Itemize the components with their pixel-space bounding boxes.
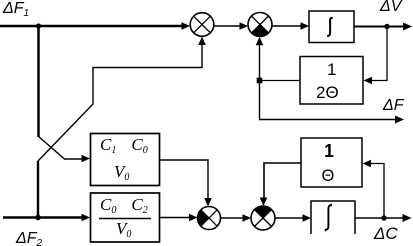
node junction dot on ΔC line [381,215,386,220]
wire M2 to integrator U1 [272,25,301,27]
wire ΔF1 input horizontal [0,25,183,28]
svg-text:1: 1 [324,141,334,161]
node junction dot at ΔF2 line [35,215,41,221]
wire block B1 output to mixer M3 [160,160,209,200]
svg-text:ΔV: ΔV [379,0,403,15]
wire arrow up into mixer M2 bottom [256,37,264,46]
wire feedback up into mixer M2 bottom [259,44,261,81]
wire M3 to M4 [221,217,244,219]
mixer M3 (west quadrant filled) [198,207,221,230]
multiplier M1 [190,13,214,37]
wire feedback from ΔV node down to block B3 [371,27,387,81]
wire arrow into mixer M2 left [240,22,249,30]
wire B3 output to M2 junction [260,80,301,82]
svg-text:ΔC: ΔC [373,224,398,243]
wire arrow into block B2 [82,214,91,222]
svg-text:1: 1 [327,60,336,79]
svg-text:Θ: Θ [322,167,335,185]
wire block B2 output to mixer M3 [160,217,191,219]
wire M1 to M2 [214,25,240,27]
wire arrow ΔF output [395,116,404,124]
wire ΔF1 diagonal to block B1 [38,136,83,159]
wire arrow left into block B4 right side [363,160,372,168]
wire B4 output to mixer M4 top [264,163,301,199]
wire arrow up into multiplier M1 bottom [198,37,206,46]
wire arrow ΔC output [403,214,412,222]
block U1 integrator [309,11,354,43]
wire U1 output to ΔV [354,26,404,28]
mixer M2 (south quadrant filled) [248,13,272,37]
wire arrow down into mixer M3 top [204,198,212,207]
wire arrow down into mixer M4 top [260,198,268,207]
wire ΔF2 input horizontal [3,216,83,218]
wire M4 to integrator U2 [275,217,303,219]
wire arrow ΔV output [403,23,412,31]
block B1 gain C1C0/V0 [91,134,160,186]
wire arrow into integrator U2 [303,214,312,222]
wire arrow into block B1 [82,155,91,163]
wire ΔF output down and right [260,81,397,120]
wire arrow into multiplier M1 [182,22,191,30]
node junction dot on ΔV line [384,24,389,29]
wire ΔF2 vertical trunk [37,161,39,218]
block U2 integrator (open bottom) [311,201,355,234]
wire arrow into mixer M3 left [189,214,198,222]
block B2 gain C0C2/V0 [91,193,160,242]
node junction dot at ΔF1 line [36,23,41,28]
wire ΔF1 vertical trunk [37,26,40,137]
wire arrow into mixer M4 left [243,214,252,222]
block B4 gain 1/Θ [301,138,362,187]
wire arrow left into block B3 right side [364,77,373,85]
node junction dot below M2 [257,78,263,84]
wire U2 output to ΔC [355,217,404,219]
svg-text:2Θ: 2Θ [316,83,339,102]
wire ΔF2 diagonal feedback to multiplier M1 [38,43,202,161]
wire arrow into integrator U1 [301,22,310,30]
wire feedback from ΔC node up to block B4 [370,164,384,219]
svg-text:ΔF: ΔF [382,97,405,114]
block B3 gain 1/2Θ [300,57,363,105]
mixer M4 (north quadrant filled) [251,206,275,230]
